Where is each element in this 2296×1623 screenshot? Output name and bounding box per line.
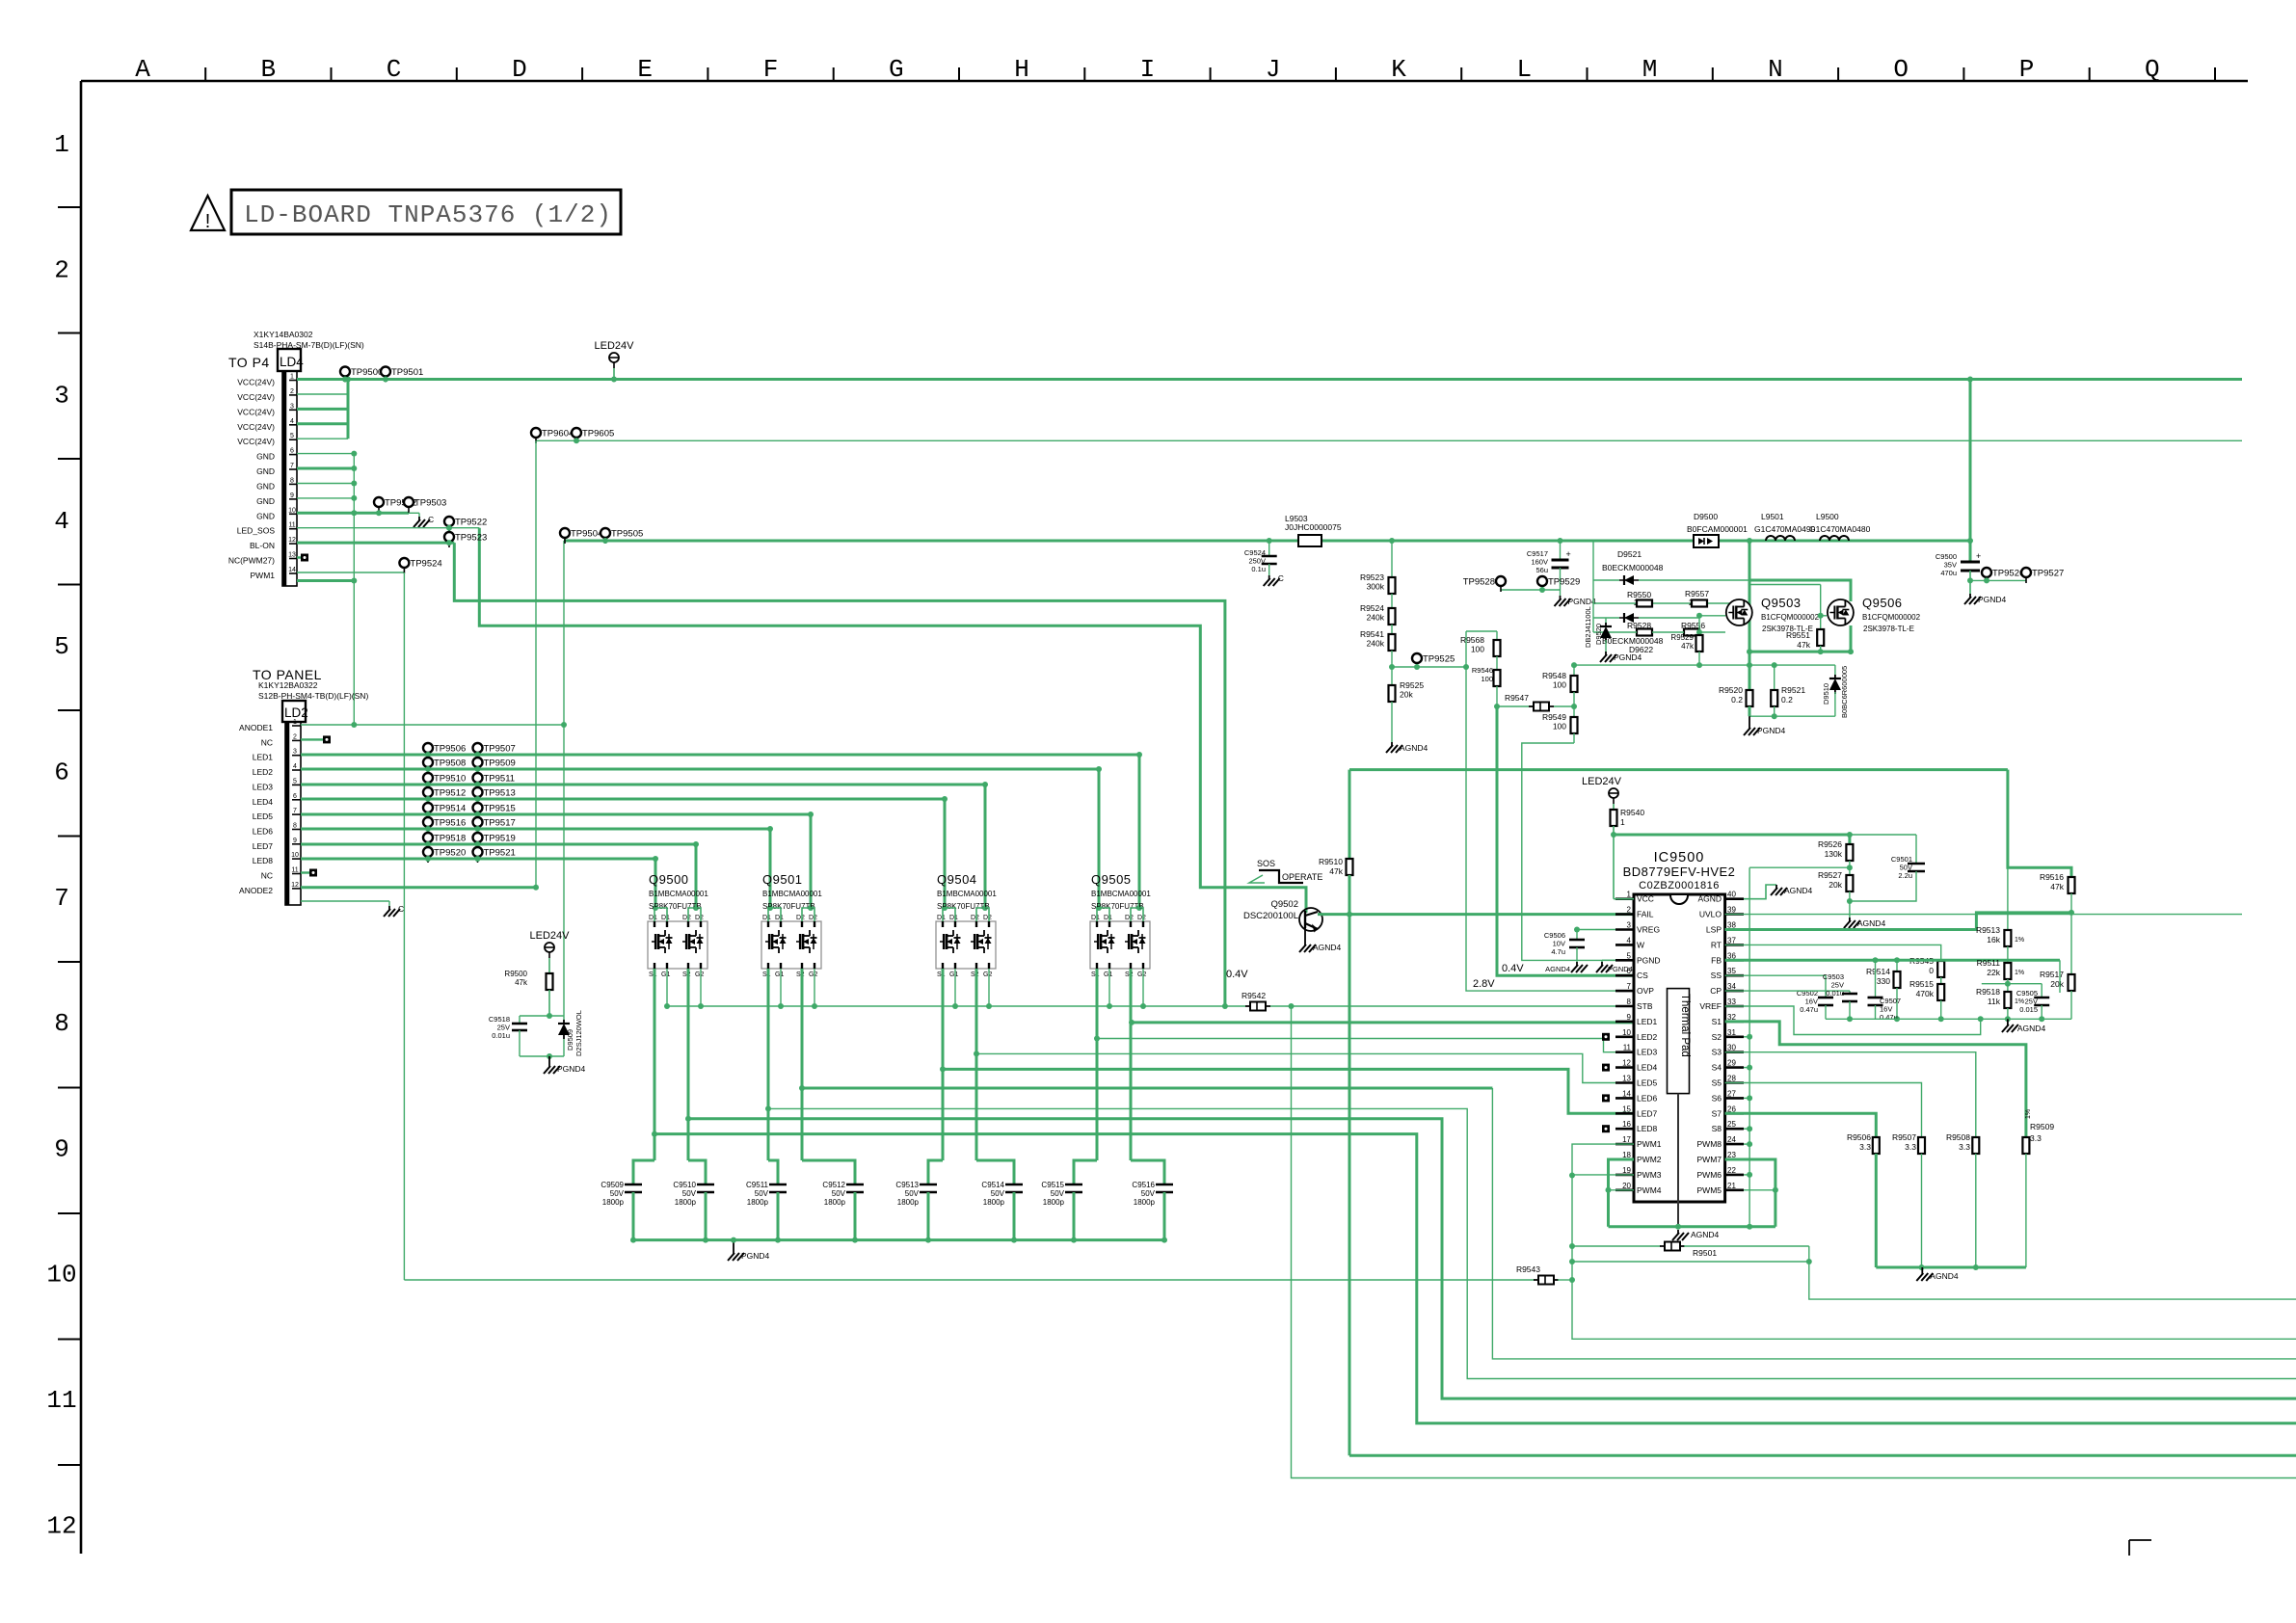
- wire C9514 to PGND bus: [1013, 1192, 1016, 1240]
- testpoint TP9527: [2021, 568, 2031, 577]
- svg-text:LED6: LED6: [253, 827, 274, 837]
- svg-text:28: 28: [1727, 1075, 1736, 1083]
- resistor R9548 100: [1573, 665, 1575, 676]
- resistor R9524 240k: [1389, 608, 1396, 625]
- svg-text:G1C470MA0480: G1C470MA0480: [1809, 524, 1871, 534]
- svg-text:47k: 47k: [2050, 882, 2064, 891]
- svg-text:R9508: R9508: [1946, 1132, 1970, 1142]
- svg-text:LED8: LED8: [253, 856, 274, 865]
- svg-text:L9501: L9501: [1761, 512, 1784, 521]
- svg-text:9: 9: [293, 838, 297, 844]
- LD2 pin2 NC square: [301, 738, 323, 740]
- bottom-right corner mark: [2129, 1539, 2151, 1541]
- svg-text:D2: D2: [796, 915, 805, 921]
- svg-text:8: 8: [1627, 998, 1632, 1006]
- svg-text:C9514: C9514: [981, 1181, 1004, 1189]
- svg-text:R9521: R9521: [1781, 685, 1805, 695]
- svg-text:14: 14: [288, 567, 296, 573]
- svg-text:D1: D1: [937, 915, 946, 921]
- svg-text:VCC(24V): VCC(24V): [237, 437, 275, 446]
- ground PGND4 under D9520: [1605, 652, 1607, 655]
- wire Q9505 S1 source vertical: [1096, 969, 1099, 1160]
- svg-text:Thermal Pad: Thermal Pad: [1679, 994, 1691, 1057]
- wire Q9504 S1 tap to IC pin15 LED7: [943, 1069, 1634, 1113]
- border frame top line: [81, 80, 2248, 83]
- svg-text:7: 7: [54, 884, 69, 913]
- wire C9518/D9509 top rail: [520, 1015, 564, 1017]
- svg-text:14: 14: [1622, 1089, 1631, 1098]
- wire LED5 drain riser down: [810, 814, 813, 908]
- ground PGND4 under sense resistors: [1749, 716, 1750, 725]
- svg-text:1: 1: [293, 719, 297, 726]
- wire Q9504 S2 source vertical: [975, 969, 978, 1160]
- wire R9547 row: [1497, 705, 1533, 707]
- svg-text:+: +: [1976, 551, 1981, 561]
- svg-text:1: 1: [1627, 891, 1632, 899]
- svg-text:R9527: R9527: [1818, 870, 1842, 880]
- svg-text:PGND4: PGND4: [1757, 726, 1786, 735]
- svg-text:1%: 1%: [2015, 970, 2024, 976]
- svg-text:B1MBCMA00001: B1MBCMA00001: [649, 890, 708, 898]
- testpoint TP9513: [473, 787, 483, 797]
- svg-text:TP9505: TP9505: [611, 529, 643, 540]
- resistor R9527 20k: [1846, 875, 1853, 891]
- svg-text:25: 25: [1727, 1120, 1736, 1129]
- wire fan line 8 from STB junction: [1292, 1006, 2296, 1478]
- svg-text:19: 19: [1622, 1166, 1631, 1175]
- wire Q9503 gate: [1699, 615, 1725, 617]
- testpoint TP9519: [473, 833, 483, 842]
- resistor R9517 20k: [2070, 913, 2072, 974]
- svg-text:R9511: R9511: [1977, 958, 2001, 968]
- svg-text:40: 40: [1727, 891, 1736, 899]
- svg-text:S4: S4: [1712, 1063, 1722, 1073]
- svg-text:D9500: D9500: [1694, 512, 1718, 521]
- svg-text:3.3: 3.3: [1905, 1142, 1916, 1152]
- diode D9622 B0ECKM000048: [1624, 613, 1634, 623]
- svg-text:Q9501: Q9501: [762, 872, 803, 887]
- IC9500 pin 6 CS: [1615, 974, 1634, 977]
- wire AGND rail right side: [1826, 1018, 2071, 1020]
- resistor R9518 11k: [2004, 992, 2011, 1008]
- IC9500 pin 31 S2: [1725, 1036, 1744, 1039]
- svg-text:SP8K70FU7TB: SP8K70FU7TB: [649, 902, 702, 911]
- svg-text:BL-ON: BL-ON: [250, 541, 275, 550]
- svg-text:0.2: 0.2: [1781, 695, 1793, 705]
- svg-text:50V: 50V: [1051, 1189, 1065, 1198]
- svg-text:E: E: [637, 55, 653, 84]
- wire ANODE1 row: [301, 724, 564, 726]
- testpoint TP9517: [473, 817, 483, 827]
- svg-text:2: 2: [293, 733, 297, 740]
- svg-text:TP9604: TP9604: [542, 429, 574, 439]
- ground AGND4 under 3.3 ohm bus: [1921, 1267, 1923, 1270]
- svg-text:0.1u: 0.1u: [1251, 565, 1266, 573]
- svg-text:4: 4: [290, 418, 294, 425]
- svg-text:16k: 16k: [1987, 935, 2000, 945]
- svg-text:Q9500: Q9500: [649, 872, 689, 887]
- svg-text:G2: G2: [695, 971, 704, 978]
- svg-text:TP9504: TP9504: [571, 529, 602, 540]
- svg-text:LED2: LED2: [1637, 1032, 1658, 1042]
- capacitor C9500 35V 470u: [1961, 561, 1980, 564]
- svg-text:D2: D2: [1137, 915, 1146, 921]
- svg-text:C9516: C9516: [1132, 1181, 1155, 1189]
- resistor R9526 130k: [1846, 844, 1853, 861]
- svg-text:C9509: C9509: [601, 1181, 624, 1189]
- resistor R9507 3.3: [1918, 1137, 1925, 1154]
- svg-text:ANODE2: ANODE2: [239, 886, 273, 895]
- svg-text:TP9524: TP9524: [410, 559, 441, 570]
- wire IC pin19 PWM3 stub: [1572, 1174, 1634, 1176]
- green wedge arrow: [1249, 875, 1265, 883]
- wire Q9505 S2 tap to IC pin9 LED1: [1132, 1021, 1634, 1024]
- svg-text:0.015: 0.015: [2019, 1005, 2038, 1014]
- capacitor C9515 50V 1800p: [1065, 1184, 1082, 1186]
- wire bottom of divider: [520, 1055, 564, 1057]
- svg-text:0.4V: 0.4V: [1226, 969, 1248, 980]
- svg-text:20k: 20k: [2050, 979, 2064, 989]
- svg-text:22k: 22k: [1987, 968, 2000, 977]
- IC9500 pin 9 LED1: [1615, 1021, 1634, 1024]
- svg-text:LSP: LSP: [1706, 925, 1722, 935]
- svg-text:SOS: SOS: [1257, 859, 1275, 868]
- svg-text:J: J: [1266, 55, 1281, 84]
- ground PGND4 under C9517: [1560, 590, 1562, 596]
- svg-text:R9509: R9509: [2030, 1122, 2054, 1131]
- svg-text:VCC: VCC: [1637, 894, 1654, 904]
- connector LD2 designator box: [282, 701, 306, 722]
- svg-text:4: 4: [54, 507, 69, 536]
- svg-text:11: 11: [1623, 1044, 1632, 1052]
- svg-text:0.01u: 0.01u: [492, 1031, 510, 1040]
- capacitor C9513 50V 1800p: [920, 1184, 937, 1186]
- svg-text:LED8: LED8: [1637, 1124, 1658, 1133]
- resistor R9541 240k: [1389, 634, 1396, 651]
- resistor R9540 1: [1613, 804, 1615, 810]
- svg-text:R9547: R9547: [1505, 693, 1529, 703]
- wire pin26 S7 to R9506: [1725, 1113, 1877, 1137]
- svg-text:IC9500: IC9500: [1654, 850, 1705, 865]
- wire Q9500 S1 tap to right edge via fan: [654, 1134, 2296, 1423]
- IC9500 pin 33 VREF: [1725, 1005, 1744, 1008]
- svg-text:TP9520: TP9520: [434, 848, 466, 859]
- wire R9526/R9527 tap to AGND run: [1749, 866, 1850, 868]
- wire drain bridge Q9503/Q9506: [1747, 538, 1752, 544]
- svg-text:R9529: R9529: [1670, 633, 1694, 642]
- svg-text:BD8779EFV-HVE2: BD8779EFV-HVE2: [1623, 865, 1736, 879]
- wire OVP divider tap: [1392, 667, 1634, 991]
- svg-text:47k: 47k: [1797, 640, 1810, 650]
- wire BL-ON vertical and across to gate bus: [454, 543, 1225, 1006]
- testpoint TP9503: [404, 497, 414, 507]
- svg-text:50V: 50V: [682, 1189, 697, 1198]
- svg-text:13: 13: [1622, 1075, 1631, 1083]
- svg-text:D2: D2: [695, 915, 704, 921]
- capacitor C9518 25V 0.01u: [519, 1016, 521, 1024]
- resistor R9542: [1245, 1005, 1270, 1007]
- svg-text:R9500: R9500: [504, 970, 527, 978]
- svg-text:G1: G1: [775, 971, 784, 978]
- svg-text:6: 6: [293, 793, 297, 800]
- ground AGND4 under C9506: [1576, 962, 1578, 966]
- testpoint TP9504: [560, 528, 570, 538]
- wire R9510 top branch: [1349, 768, 2008, 771]
- svg-text:C: C: [1278, 573, 1284, 583]
- wire pin37 RT to R9545 stack: [1725, 945, 1941, 961]
- svg-text:5: 5: [54, 632, 69, 661]
- ground PGND4 at IC pin5: [1601, 962, 1603, 966]
- wire LED4 drain riser down: [944, 799, 947, 908]
- svg-text:GND: GND: [256, 466, 275, 476]
- svg-text:SP8K70FU7TB: SP8K70FU7TB: [937, 902, 990, 911]
- svg-text:PWM3: PWM3: [1637, 1170, 1662, 1180]
- wire source elbow to C9509: [633, 1160, 654, 1184]
- svg-text:TP9528: TP9528: [1463, 577, 1495, 588]
- border frame left line: [80, 81, 83, 1554]
- title box LD-BOARD TNPA5376 (1/2): [231, 190, 621, 234]
- svg-text:12: 12: [1622, 1059, 1631, 1068]
- warning triangle: [191, 196, 225, 230]
- capacitor C9510 50V 1800p: [697, 1184, 714, 1186]
- resistor R9551 47k: [1817, 629, 1824, 646]
- svg-text:R9541: R9541: [1360, 629, 1384, 639]
- svg-text:3: 3: [293, 749, 297, 756]
- wire LED6 drain riser down: [769, 829, 772, 908]
- svg-text:NC: NC: [261, 871, 273, 881]
- svg-text:10: 10: [46, 1261, 76, 1290]
- svg-text:D2: D2: [971, 915, 979, 921]
- svg-text:B: B: [260, 55, 276, 84]
- svg-text:VREG: VREG: [1637, 925, 1660, 935]
- resistor R9520 0.2: [1749, 665, 1751, 690]
- svg-text:39: 39: [1727, 906, 1736, 915]
- wire LED6 row from LD2 to MOSFET drain riser: [301, 828, 770, 831]
- svg-text:AGND4: AGND4: [1400, 743, 1428, 753]
- svg-text:VCC(24V): VCC(24V): [237, 422, 275, 432]
- svg-text:1800p: 1800p: [602, 1198, 625, 1207]
- ground PGND4 under LED24V divider: [548, 1056, 550, 1063]
- svg-text:Q9502: Q9502: [1270, 899, 1298, 910]
- wire source elbow to C9511: [768, 1160, 778, 1184]
- connector LD2 body: [285, 722, 301, 905]
- svg-text:4: 4: [1627, 936, 1632, 945]
- svg-text:S14B-PHA-SM-7B(D)(LF)(SN): S14B-PHA-SM-7B(D)(LF)(SN): [254, 340, 364, 350]
- wire LED2 row from LD2 to MOSFET drain riser: [301, 768, 1099, 771]
- wire CS net vertical: [1497, 706, 1634, 975]
- svg-text:ANODE1: ANODE1: [239, 723, 273, 732]
- transistor Q9506 2SK3978-TL-E: [1828, 599, 1854, 625]
- IC9500 pin 40 AGND: [1725, 897, 1744, 900]
- svg-text:LED4: LED4: [1637, 1063, 1658, 1073]
- svg-text:LED1: LED1: [1637, 1017, 1658, 1026]
- svg-text:R9523: R9523: [1360, 572, 1384, 582]
- svg-text:3: 3: [54, 382, 69, 411]
- resistor R9549 100: [1571, 717, 1578, 733]
- resistor R9508 3.3: [1972, 1137, 1979, 1154]
- IC9500 pin 4 W: [1615, 944, 1634, 946]
- svg-text:AGND4: AGND4: [1784, 886, 1813, 895]
- wire sense resistor bottom rail: [1749, 715, 1835, 717]
- IC9500 pin 25 S8: [1725, 1128, 1744, 1131]
- svg-text:R9516: R9516: [2040, 872, 2064, 882]
- svg-text:PWM6: PWM6: [1697, 1170, 1722, 1180]
- wire source bus Q9503/Q9506: [1749, 651, 1851, 653]
- svg-text:TP9515: TP9515: [484, 804, 516, 814]
- IC9500 pin 23 PWM7: [1725, 1158, 1744, 1161]
- svg-text:S5: S5: [1712, 1078, 1722, 1088]
- svg-text:TP9510: TP9510: [434, 774, 466, 785]
- wire Q9501 S1 source vertical: [767, 969, 770, 1160]
- svg-text:C9513: C9513: [895, 1181, 919, 1189]
- svg-text:LED7: LED7: [253, 841, 274, 851]
- wire AGND bus under 3.3 ohm resistors: [1876, 1266, 2026, 1269]
- svg-text:G1: G1: [1104, 971, 1112, 978]
- connector LD4 designator box: [278, 349, 301, 371]
- svg-text:C: C: [387, 55, 402, 84]
- svg-text:LED1: LED1: [253, 753, 274, 762]
- svg-text:TP9518: TP9518: [434, 834, 466, 844]
- svg-text:LED3: LED3: [1637, 1048, 1658, 1057]
- IC9500 pin 2 FAIL: [1615, 913, 1634, 916]
- svg-text:S6: S6: [1712, 1093, 1722, 1103]
- svg-text:R9518: R9518: [1976, 987, 2000, 997]
- svg-text:H: H: [1014, 55, 1029, 84]
- resistor R9521 0.2: [1774, 665, 1775, 690]
- IC9500 pin 11 LED3: [1615, 1051, 1634, 1053]
- svg-text:100: 100: [1553, 722, 1566, 732]
- svg-text:PGND4: PGND4: [1978, 595, 2007, 604]
- transistor Q9503 2SK3978-TL-E: [1726, 599, 1752, 625]
- wire LED3 drain riser down: [984, 785, 987, 908]
- svg-text:11k: 11k: [1988, 997, 2001, 1006]
- wire LD4 shield stub: [297, 579, 354, 582]
- svg-text:Q9503: Q9503: [1761, 596, 1802, 610]
- svg-text:D: D: [512, 55, 527, 84]
- wire Q9505 G2 gate stub to gate bus: [1142, 969, 1144, 1006]
- svg-text:PGND4: PGND4: [1568, 597, 1597, 606]
- svg-text:N: N: [1768, 55, 1783, 84]
- resistor R9543 on PWM1 row: [404, 1279, 1535, 1281]
- resistor R9514 330: [1894, 957, 1900, 963]
- svg-text:50V: 50V: [755, 1189, 769, 1198]
- IC9500 pin 17 PWM1: [1615, 1143, 1634, 1146]
- LD4 pin13 NC square: [301, 554, 308, 562]
- svg-text:PWM1: PWM1: [1637, 1139, 1662, 1149]
- svg-text:9: 9: [54, 1134, 69, 1163]
- svg-text:TP9512: TP9512: [434, 788, 466, 799]
- svg-text:K: K: [1391, 55, 1406, 84]
- resistor R9568 100: [1496, 631, 1498, 640]
- svg-text:TP9511: TP9511: [484, 774, 516, 785]
- wire R9568 top feed: [1466, 630, 1497, 632]
- ground AGND4 on run: [1677, 1230, 1679, 1234]
- IC9500 pin 35 SS: [1725, 974, 1744, 977]
- svg-text:9: 9: [1627, 1013, 1632, 1022]
- testpoint TP9520: [423, 847, 433, 857]
- capacitor C9509 50V 1800p: [625, 1184, 642, 1186]
- svg-text:D1: D1: [661, 915, 670, 921]
- svg-text:0: 0: [1929, 966, 1934, 975]
- svg-text:7: 7: [293, 808, 297, 814]
- svg-text:S2: S2: [1712, 1032, 1722, 1042]
- svg-text:100: 100: [1481, 675, 1493, 683]
- svg-text:O: O: [1893, 55, 1909, 84]
- testpoint TP9509: [473, 758, 483, 767]
- svg-text:AGND4: AGND4: [1313, 943, 1342, 952]
- wire Q9504 S2 tap to IC pin13 LED5: [976, 1053, 1634, 1082]
- svg-text:1800p: 1800p: [747, 1198, 769, 1207]
- svg-text:LED24V: LED24V: [530, 930, 571, 942]
- capacitor C9517 160V 56u: [1558, 538, 1563, 544]
- wire pin33 VREF loop: [1725, 1006, 1981, 1035]
- svg-text:LED24V: LED24V: [1582, 776, 1622, 787]
- wire Q9500 G1 gate stub to gate bus: [666, 969, 668, 1006]
- capacitor C9502 16V 0.47u: [1818, 997, 1833, 999]
- wire LED7 row from LD2 to MOSFET drain riser: [301, 843, 696, 846]
- svg-text:Q9505: Q9505: [1091, 872, 1132, 887]
- capacitor C9512 50V 1800p: [846, 1184, 864, 1186]
- svg-text:B1MBCMA00001: B1MBCMA00001: [762, 890, 822, 898]
- svg-text:LD-BOARD TNPA5376 (1/2): LD-BOARD TNPA5376 (1/2): [244, 200, 612, 229]
- capacitor C9516 50V 1800p: [1156, 1184, 1173, 1186]
- svg-text:8: 8: [293, 823, 297, 830]
- wire R9540 branch to R9526: [1614, 835, 1850, 844]
- wire LED1 drain riser down: [1138, 755, 1141, 908]
- svg-text:50V: 50V: [1141, 1189, 1156, 1198]
- testpoint TP9525: [1412, 653, 1422, 663]
- svg-text:FB: FB: [1711, 955, 1722, 965]
- svg-text:D2: D2: [1125, 915, 1134, 921]
- svg-text:56u: 56u: [1535, 566, 1548, 574]
- testpoint TP9604: [531, 428, 541, 438]
- Q9504 drain pair brackets: [943, 908, 955, 921]
- svg-text:20: 20: [1622, 1182, 1631, 1190]
- svg-text:LED2: LED2: [253, 767, 274, 777]
- svg-text:R9507: R9507: [1892, 1132, 1916, 1142]
- wire pin40 AGND to ground: [1744, 885, 1776, 899]
- svg-text:1800p: 1800p: [824, 1198, 846, 1207]
- IC9500 pin 18 PWM2: [1615, 1158, 1634, 1161]
- IC9500 pin 22 PWM6: [1725, 1174, 1744, 1177]
- svg-text:G2: G2: [1137, 971, 1146, 978]
- svg-text:5: 5: [1627, 951, 1632, 960]
- svg-text:20k: 20k: [1400, 690, 1413, 700]
- svg-text:100: 100: [1471, 645, 1484, 654]
- svg-text:PWM5: PWM5: [1697, 1185, 1722, 1195]
- svg-text:P: P: [2019, 55, 2035, 84]
- svg-text:B1MBCMA00001: B1MBCMA00001: [937, 890, 997, 898]
- wire S2/S4/S6/S8/PWM8/PWM6 NC chain: [1744, 1036, 1749, 1038]
- wire source elbow to C9513: [928, 1160, 943, 1184]
- svg-text:TP9529: TP9529: [1548, 577, 1580, 588]
- svg-text:TO P4: TO P4: [228, 355, 270, 370]
- testpoint TP9528: [1496, 576, 1506, 586]
- svg-text:20k: 20k: [1829, 880, 1842, 890]
- svg-text:R9515: R9515: [1909, 979, 1934, 989]
- svg-text:R9540: R9540: [1620, 808, 1644, 817]
- wire pin30 S3 to R9508: [1725, 1052, 1976, 1137]
- svg-text:TP9527: TP9527: [2032, 569, 2064, 579]
- svg-text:5: 5: [293, 778, 297, 785]
- svg-text:C0ZBZ0001816: C0ZBZ0001816: [1639, 880, 1720, 891]
- svg-text:D1: D1: [775, 915, 784, 921]
- svg-text:12: 12: [46, 1511, 76, 1540]
- svg-text:1: 1: [54, 130, 69, 159]
- svg-text:0.47u: 0.47u: [1800, 1005, 1818, 1014]
- svg-text:CS: CS: [1637, 971, 1648, 980]
- svg-text:1%: 1%: [2015, 937, 2024, 944]
